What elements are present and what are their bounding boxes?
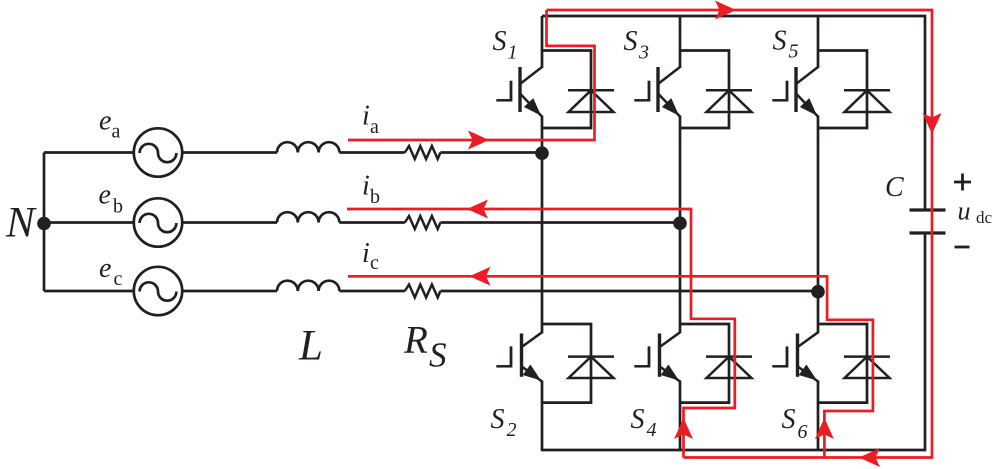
label S6	[782, 404, 808, 443]
arrowhead S6 leg riser (points up)	[815, 418, 834, 439]
wire inductor to resistor phase b	[339, 221, 405, 224]
inductor L phase c	[277, 281, 339, 291]
svg-text:5: 5	[789, 41, 799, 63]
label u_dc (dc voltage)	[958, 197, 993, 228]
svg-text:b: b	[370, 186, 380, 208]
svg-text:S: S	[491, 404, 505, 435]
svg-text:S: S	[782, 404, 796, 435]
label i_c	[362, 238, 379, 274]
inductor L phase a	[277, 142, 339, 152]
transistor S1 IGBT	[496, 67, 542, 117]
AC source e_b (circle with sine)	[134, 198, 182, 246]
wire leg b middle (S3 emitter to S4 collector)	[679, 116, 682, 334]
svg-text:a: a	[112, 121, 121, 143]
svg-text:S: S	[493, 26, 507, 57]
wire leg c middle (S5 emitter to S6 collector)	[817, 116, 820, 334]
node phase a junction dot	[535, 146, 549, 160]
wire top DC+ rail	[542, 16, 925, 210]
diode D5 antiparallel with S5	[818, 51, 890, 129]
label i_b	[362, 170, 380, 208]
AC source e_a (circle with sine)	[134, 128, 182, 176]
label R_S (resistor value)	[403, 319, 447, 375]
transistor S5 IGBT	[772, 67, 818, 117]
current path i_a (red): phase a line up through D1 to top rail	[348, 10, 595, 140]
wire inductor to resistor phase c	[339, 290, 405, 293]
diode D4 antiparallel with S4	[680, 324, 752, 403]
svg-text:2: 2	[507, 419, 517, 441]
svg-text:6: 6	[798, 421, 808, 443]
wire from N to source e_c	[44, 290, 134, 293]
wire from N to source e_b	[44, 221, 134, 224]
node phase c junction dot	[811, 285, 825, 299]
resistor R_S phase a	[405, 146, 441, 159]
svg-text:R: R	[403, 319, 428, 362]
svg-text:4: 4	[647, 419, 657, 441]
svg-text:c: c	[114, 268, 123, 290]
svg-text:S: S	[624, 26, 638, 57]
label + (dc bus positive)	[954, 174, 971, 191]
wire from N to source e_a	[44, 151, 134, 154]
AC source e_c (circle with sine)	[134, 267, 182, 315]
svg-text:c: c	[370, 252, 379, 274]
svg-text:S: S	[429, 336, 447, 375]
diode D6 antiparallel with S6	[818, 324, 890, 403]
svg-text:S: S	[631, 404, 645, 435]
svg-text:L: L	[298, 323, 323, 370]
label e_c	[99, 253, 123, 290]
svg-text:N: N	[5, 200, 37, 247]
wire bottom DC- rail	[541, 233, 925, 450]
svg-text:e: e	[99, 180, 111, 211]
resistor R_S phase b	[405, 216, 441, 229]
node phase b junction dot	[673, 216, 687, 230]
wire N vertical bus	[43, 153, 46, 292]
arrowhead top rail (points right)	[715, 1, 736, 20]
capacitor C plates	[910, 210, 946, 233]
svg-text:e: e	[99, 253, 111, 284]
arrowhead DC link (points down)	[923, 113, 942, 134]
wire leg c lower (S6 emitter to bottom rail)	[817, 381, 820, 451]
svg-text:C: C	[885, 172, 904, 203]
svg-text:1: 1	[508, 41, 518, 63]
label i_a	[362, 101, 379, 139]
wire resistor to node b	[440, 221, 680, 224]
label - (dc bus negative)	[955, 246, 970, 249]
label S4	[631, 404, 657, 441]
svg-text:S: S	[773, 26, 787, 57]
label S2	[491, 404, 517, 441]
diode D1 antiparallel with S1	[542, 51, 614, 129]
svg-text:a: a	[370, 116, 379, 138]
wire leg c upper (top rail to S5 collector)	[817, 16, 820, 68]
label S1	[493, 26, 518, 63]
transistor S3 IGBT	[634, 67, 680, 117]
wire leg b upper (top rail to S3 collector)	[679, 16, 682, 68]
wire resistor to node c	[440, 290, 818, 293]
svg-text:i: i	[362, 170, 370, 201]
arrowhead i_a (points right)	[468, 131, 489, 150]
diode D3 antiparallel with S3	[680, 51, 752, 129]
svg-text:dc: dc	[976, 208, 993, 227]
wire source e_b to inductor	[182, 221, 277, 224]
diode D2 antiparallel with S2	[542, 324, 614, 403]
svg-text:i: i	[362, 238, 370, 269]
svg-text:b: b	[113, 196, 123, 218]
wire source e_c to inductor	[182, 290, 277, 293]
label e_b	[99, 180, 124, 218]
transistor S4 IGBT	[634, 332, 680, 381]
wire leg b lower (S4 emitter to bottom rail)	[679, 381, 682, 451]
wire leg a middle (S1 emitter to S2 collector)	[541, 116, 544, 334]
wire inductor to resistor phase a	[339, 151, 405, 154]
arrowhead i_c (points left)	[470, 267, 491, 286]
current path i_b (red): bottom rail up through D4 to phase b line	[347, 209, 735, 458]
inductor L phase b	[277, 212, 339, 222]
node N junction dot	[37, 217, 51, 231]
label e_a	[99, 106, 121, 143]
svg-text:3: 3	[638, 41, 649, 63]
resistor R_S phase c	[405, 285, 441, 298]
current path i_c (red): bottom rail up through D6 to phase c line	[348, 276, 873, 457]
label S3	[624, 26, 650, 63]
wire leg a lower (S2 emitter to bottom rail)	[541, 381, 544, 451]
transistor S6 IGBT	[772, 332, 818, 381]
current path (red): top rail and DC link down to bottom rail	[547, 10, 933, 458]
label S5	[773, 26, 799, 63]
wire source e_a to inductor	[182, 151, 277, 154]
svg-text:e: e	[99, 106, 111, 137]
transistor S2 IGBT	[496, 332, 542, 381]
wire resistor to node a	[440, 151, 542, 154]
arrowhead S4 leg riser (points up)	[674, 418, 693, 439]
svg-text:u: u	[958, 197, 971, 226]
svg-text:i: i	[362, 101, 370, 132]
arrowhead bottom rail (points left)	[859, 448, 880, 467]
arrowhead i_b (points left)	[467, 200, 488, 219]
wire leg a upper (top rail to S1 collector)	[541, 16, 544, 68]
